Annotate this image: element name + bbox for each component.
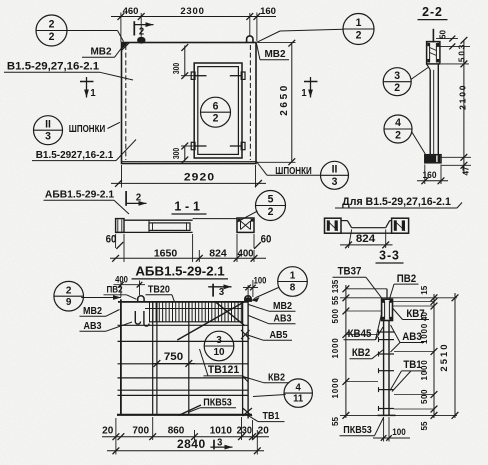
label KV2 (rebar) [243,372,290,384]
section 1-1: divider [148,220,150,232]
svg-text:2510: 2510 [439,342,450,371]
marker circle 2/2 [36,15,67,46]
svg-text:АБВ1.5-29-2.1: АБВ1.5-29-2.1 [135,263,225,278]
marker circle 6/2 (opening) [201,97,231,127]
bottom-right corner cross [243,376,252,416]
svg-text:АБВ1.5-29-2.1: АБВ1.5-29-2.1 [45,189,114,200]
svg-text:МВ2: МВ2 [90,46,111,57]
svg-text:55: 55 [330,417,340,426]
svg-text:КВ45: КВ45 [348,329,372,341]
3-3 bottom boundary line [340,414,457,416]
section 2-2: body right edge [437,64,439,155]
vertical rebar single [188,302,190,415]
marker circle 3/2 [383,68,411,96]
label TV1 (3-3) [390,360,426,392]
svg-text:750: 750 [164,351,183,363]
3-3 stem left edge [383,321,385,416]
svg-text:1650: 1650 [154,247,178,259]
svg-text:160: 160 [423,170,437,180]
dim 300 top of opening [171,44,194,79]
svg-text:20: 20 [102,425,113,436]
svg-text:5: 5 [268,193,274,205]
svg-text:11: 11 [293,393,304,404]
leader circle 1/8 [252,288,279,303]
svg-text:2: 2 [66,285,72,296]
plan view: right lifting loop [247,36,253,43]
dim text 47 [460,166,470,175]
3-3 upper ext line [346,288,387,290]
title 2-2 [418,5,448,20]
rebar hooks (AV3) [135,311,149,326]
dim text 503 [456,43,466,62]
section 2-2: body mid line [433,70,435,155]
label V1.5-29,27,16-2.1 (top left) [4,61,133,80]
section 1-1: right end block [237,218,254,232]
svg-text:МВ2: МВ2 [83,305,102,317]
3-3 stem bottom [378,414,396,416]
marker circle 1/8 [278,267,308,297]
diagonal bar upper-right [215,302,245,326]
section 2-2: top end block [427,42,440,64]
label AV3 (rebar right) [249,313,296,325]
svg-text:500: 500 [419,389,429,404]
plan view: opening anchor lug bottom-right [230,142,245,149]
top dim line [111,16,276,18]
rebar bottom dim row1 [102,433,269,440]
dim text 55 (right) [419,421,429,430]
svg-text:2300: 2300 [180,6,204,17]
svg-text:2: 2 [49,31,55,43]
dim text 1000 (right b) [419,360,429,381]
svg-text:4: 4 [296,382,302,393]
plan view: inner dashed edge lines [126,45,251,160]
svg-text:1000: 1000 [419,360,429,381]
leader circle 4/11 [253,395,286,397]
plan view: panel outline [122,43,257,164]
section mark 1 (left) [80,77,96,99]
svg-text:2840: 2840 [177,437,206,451]
plan view: opening anchor lug top-right [230,72,245,79]
svg-text:II: II [332,163,338,175]
dim text 55 (upper left) [330,296,340,305]
title 1-1 [172,199,207,214]
svg-text:МВ2: МВ2 [273,300,292,312]
leader circle 5/2 to section [237,211,258,222]
label AV3 (3-3) [391,325,425,352]
svg-text:20: 20 [258,425,269,436]
dim text 460 [123,6,139,17]
section 1-1: core rect [149,223,190,231]
svg-text:15: 15 [419,285,429,294]
svg-text:10: 10 [213,347,224,358]
dim text 15 [419,285,429,294]
svg-text:1-1: 1-1 [174,199,203,213]
svg-text:1: 1 [301,88,307,100]
3-3 right ext lines [393,302,435,410]
svg-text:400: 400 [237,248,253,259]
label PKV53 (3-3) [340,418,384,436]
dim 100 (3-3) [373,417,410,442]
3-3 stem transverse bars [379,330,395,412]
3-3 left dim line [343,285,350,419]
svg-text:160: 160 [260,6,276,17]
main dim line (1-1) [110,234,266,262]
svg-text:503: 503 [456,43,466,62]
svg-text:ПВ2: ПВ2 [106,284,122,295]
3-3 top boundary line [340,297,457,299]
label KV45 [344,312,384,340]
dim text 400 (1-1) [237,248,253,259]
label MV2 (rebar right) [249,300,296,312]
dim 100 (rebar top-right) [243,275,267,297]
dim 60 left (1-1) [106,234,124,262]
plan view: door opening outer frame [194,63,242,158]
PV2 channel tail [386,289,388,300]
dlya section: left end block [325,218,342,233]
svg-text:В1.5-29,27,16-2.1: В1.5-29,27,16-2.1 [7,61,99,73]
marker circle 4/2 [384,115,412,143]
dim text 1650 [154,247,178,259]
svg-text:1000: 1000 [419,323,429,344]
svg-text:50: 50 [437,30,447,39]
svg-text:2: 2 [395,129,401,141]
section 1-1: slab bottom edge [116,231,193,233]
svg-text:4: 4 [395,117,401,129]
rebar frame right edge pair [243,297,249,419]
svg-text:2: 2 [394,82,400,94]
label V1.5-2927,16-2.1 (lower left) [32,140,136,161]
svg-text:3: 3 [45,130,51,142]
svg-text:500: 500 [330,309,340,324]
svg-text:60: 60 [106,234,117,246]
label TV1 (rebar) [247,411,285,423]
leader from circle 1/2 to corner [257,29,343,42]
svg-text:2920: 2920 [184,172,215,183]
label MV2 right [257,44,290,61]
dim text 2510 [439,342,450,371]
svg-text:II: II [45,118,51,130]
dim text 1000 (right a) [419,323,429,344]
3-3 left ext lines [346,311,381,382]
marker circle 5/2 [256,191,286,221]
dim text 135 [330,279,340,293]
svg-text:2-2: 2-2 [422,5,443,19]
label KV2 (3-3) [350,348,384,360]
leader circle 4/2 to bottom block [412,132,426,155]
dim text 500 (left) [330,309,340,324]
dim text 160 [260,6,276,17]
svg-text:3: 3 [216,335,222,346]
svg-text:3: 3 [332,176,338,188]
rebar loop top-left [138,296,144,302]
title 3-3 [376,248,404,263]
label TV121 [200,349,244,376]
top dim ticks [118,13,261,20]
leader circle 3/2 to body [411,68,428,80]
svg-text:ШПОНКИ: ШПОНКИ [69,123,105,134]
svg-text:300: 300 [171,148,181,159]
section mark 2 (bottom) [126,191,146,206]
section 1-1: opening far edge line [193,218,237,220]
label MV2 (rebar left) [80,305,120,317]
svg-text:АВ3: АВ3 [274,313,292,325]
svg-text:КВ2: КВ2 [268,372,285,384]
plan view: door opening inner frame [198,67,239,155]
section 2-2: body left edge [429,70,431,155]
label TV37 [333,266,385,301]
svg-text:824: 824 [356,233,376,245]
leader circle 2/9 [81,295,121,300]
svg-text:700: 700 [132,425,149,436]
section 1-1: left end block [116,219,124,233]
label TV20 [146,284,175,302]
svg-text:В1.5-2927,16-2.1: В1.5-2927,16-2.1 [36,150,114,161]
svg-text:2: 2 [49,18,55,30]
section mark 3 (bottom) [210,437,232,450]
svg-text:230: 230 [237,425,252,436]
svg-text:6: 6 [213,100,219,112]
svg-text:3: 3 [219,287,225,299]
label MV2 left [82,46,122,57]
leader from circle 2/2 to panel corner [67,31,124,42]
rebar frame top edge [118,302,248,309]
plan view: opening anchor lug bottom-left [191,142,206,149]
dim 160 (2-2 bottom) [417,165,448,185]
svg-text:ШПОНКИ: ШПОНКИ [275,165,311,176]
svg-text:1000: 1000 [330,338,340,359]
svg-text:2: 2 [268,206,274,218]
dim 2920 [111,165,266,188]
svg-text:1: 1 [356,17,362,29]
diagonal bar TV121 [177,302,244,340]
section 2-2: bottom end block [425,155,441,163]
svg-text:ПКВ53: ПКВ53 [343,423,372,434]
marker circle II/3 (shponki right) [321,161,349,189]
label ShPONKI left [69,122,120,134]
svg-text:2100: 2100 [457,84,467,110]
svg-text:100: 100 [392,426,406,437]
horizontal rebars [118,325,249,395]
rebar bottom dim extension lines [116,417,257,455]
rebar bottom dim row2 [107,437,264,454]
marker circle 4/11 [284,379,312,407]
svg-text:2: 2 [139,26,145,38]
dim text 860 [168,425,185,436]
svg-text:1: 1 [90,88,96,100]
dlya section: recess profile [341,221,392,228]
plan view: top-left corner chamfer [122,43,130,51]
rebar loop top-right [245,296,251,302]
dim 400 (rebar top-left) [114,274,146,297]
marker circle 1/2 [343,14,374,45]
svg-text:2650: 2650 [279,83,290,116]
dim text 700 [132,425,149,436]
rebar frame bottom edge [117,414,252,416]
svg-text:1010: 1010 [210,425,232,436]
svg-text:1000: 1000 [330,378,340,399]
svg-text:860: 860 [168,425,185,436]
3-3 overall dim line [452,293,459,419]
label ShPONKI right [256,161,321,177]
svg-text:60: 60 [261,234,272,246]
rebar plan title АБВ1.5-29-2.1 [132,263,229,279]
dlya section: bottom edge [325,232,409,234]
dim 60 right (1-1) [254,234,272,249]
svg-text:47: 47 [460,166,470,175]
svg-text:40: 40 [419,312,429,321]
svg-text:ТВ121: ТВ121 [208,364,239,376]
svg-text:100: 100 [254,275,267,286]
marker circle 2/9 [54,281,84,311]
svg-text:ПВ2: ПВ2 [397,273,417,285]
svg-text:2: 2 [356,29,362,41]
TV20 mesh verticals [150,302,242,322]
section mark 2 (top) [134,21,153,37]
section 2-2: body transition [427,64,431,70]
PV2 channel (3-3) [382,299,393,320]
svg-text:824: 824 [209,247,227,259]
svg-text:ТВ37: ТВ37 [338,266,362,278]
dim text 55 (lower left) [330,417,340,426]
diagonal bar bottom (PKV53) [179,405,202,416]
dim 824 (dlya) [340,230,393,249]
dim text 2300 [180,6,204,17]
svg-text:300: 300 [171,63,181,74]
section 1-1: slab top edge [124,219,193,221]
plan view: opening anchor lug top-left [191,72,206,79]
marker circle II/3 (shponki left) [34,116,63,145]
svg-text:2: 2 [136,192,142,204]
vertical dim 2650 [257,40,296,165]
label PV2 (3-3) [390,273,419,299]
svg-text:3: 3 [394,70,400,82]
dim text 500 (right) [419,389,429,404]
dim text 20 (right) [258,425,269,436]
dim 50 (2-2 loop) [436,30,470,50]
section mark 1 (right) [301,77,317,99]
svg-text:8: 8 [290,282,296,293]
top dim extension lines [121,13,257,43]
vertical rebar pair [153,302,157,415]
title АБВ1.5-29-2.1 (plan ref) [44,189,130,214]
label PKV53 [188,396,236,413]
label PV2 (rebar) [104,284,137,299]
svg-text:9: 9 [66,297,72,308]
dim text 20 (left) [102,425,113,436]
svg-text:3: 3 [217,437,223,449]
dim text 824 (1-1) [209,247,227,259]
plan view: left lifting loop (filled) [137,37,145,44]
dim 300 bottom of opening [171,143,194,164]
svg-text:135: 135 [330,279,340,293]
mesh bottom bar [149,321,242,323]
label AV5 (rebar right) [245,330,293,342]
dim text 40 [419,312,429,321]
dim 750 [152,351,195,367]
svg-text:55: 55 [330,296,340,305]
svg-text:2: 2 [213,112,219,124]
right edge cross marks [241,330,250,339]
section mark 3 (top) [208,284,231,298]
svg-text:АВ5: АВ5 [270,330,289,342]
dim line right of 2-2 [440,37,471,174]
svg-text:Для В1.5-29,27,16-2.1: Для В1.5-29,27,16-2.1 [342,196,451,208]
3-3 stem right edge [388,321,390,416]
svg-text:460: 460 [123,6,139,17]
dlya section: right end block [392,218,409,233]
rebar frame left edge [120,299,122,415]
dim text 2100 [457,84,467,110]
marker circle 3/10 [204,331,234,361]
svg-text:АВ3: АВ3 [84,320,102,332]
svg-text:ТВ20: ТВ20 [148,284,170,296]
svg-text:ТВ1: ТВ1 [263,411,281,423]
svg-text:55: 55 [419,421,429,430]
svg-text:400: 400 [115,274,128,285]
dim text 1000 (left a) [330,338,340,359]
label KV7 [393,308,430,320]
section 2-2: lifting loop wire [432,29,434,43]
svg-text:ПКВ53: ПКВ53 [203,396,232,407]
svg-text:3-3: 3-3 [379,248,400,262]
svg-text:КВ2: КВ2 [352,348,371,360]
label AV3 (rebar left) [80,320,133,332]
dim text 1000 (left b) [330,378,340,399]
dim text 1010 [210,425,232,436]
title Dlya V1.5-29,27,16-2.1 [335,196,462,208]
dim text 230 [237,425,252,436]
svg-text:МВ2: МВ2 [264,49,285,60]
3-3 right dim line [431,294,438,419]
svg-text:1: 1 [290,270,296,281]
